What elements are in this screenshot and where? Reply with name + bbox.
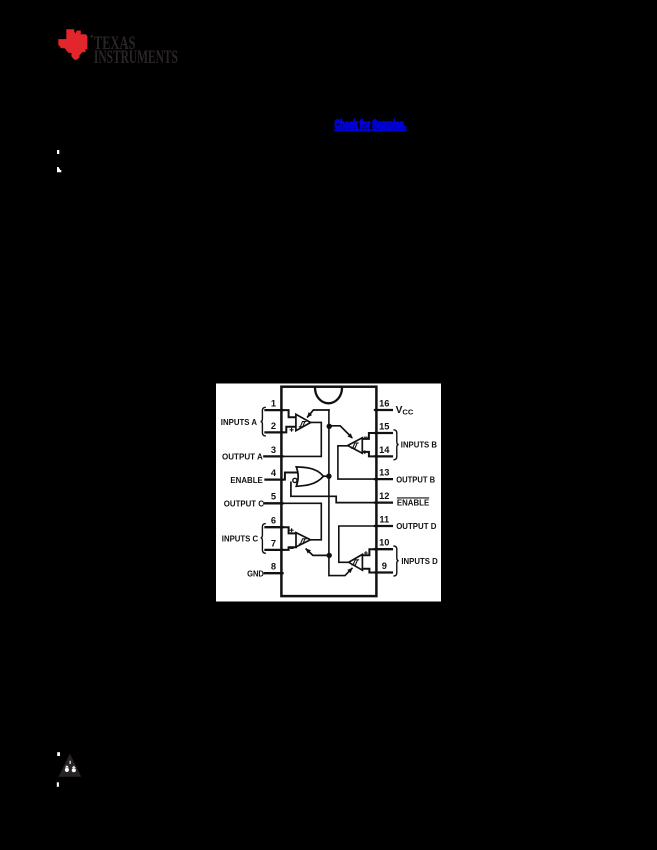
index notch: [315, 388, 342, 403]
white speck 3: [57, 752, 60, 756]
pin 2 lead: [266, 431, 283, 433]
svg-text:1: 1: [271, 399, 276, 409]
output D wire to pin 11: [339, 526, 375, 562]
output B wire to pin 13: [338, 446, 375, 479]
pin 16 lead: [375, 409, 392, 411]
pin 15 lead: [375, 432, 392, 434]
pin 12 lead: [375, 501, 392, 503]
svg-text:INSTRUMENTS: INSTRUMENTS: [94, 47, 178, 68]
svg-text:15: 15: [379, 421, 389, 431]
junction dot gate output: [326, 474, 331, 479]
brace inputs C: [261, 524, 266, 554]
legal notice triangle: [59, 754, 82, 777]
arrowhead into amp A: [307, 412, 312, 418]
junction dot upper bus: [327, 424, 332, 429]
arrowhead into amp B: [348, 433, 353, 438]
enable gate input wire from pin 4: [283, 473, 299, 480]
pin 11 lead: [375, 525, 392, 527]
white speck 4: [57, 782, 59, 787]
svg-text:INPUTS B: INPUTS B: [401, 440, 437, 450]
IC body outline: [281, 387, 376, 596]
gate output wire: [323, 475, 329, 477]
receiver amp A: [296, 414, 311, 430]
enable bus: [329, 410, 352, 576]
polarity marks: [290, 428, 368, 569]
hyperlink underline: [334, 129, 407, 131]
output A wire to pin 3: [283, 422, 322, 456]
svg-text:2: 2: [271, 421, 276, 431]
pin 10 lead: [375, 548, 392, 550]
junction dot lower bus: [327, 553, 332, 558]
pin 6 lead: [266, 526, 283, 528]
enable branch to amp B: [329, 426, 352, 438]
svg-text:16: 16: [379, 398, 389, 408]
brace inputs A: [261, 407, 266, 436]
TI logo wordmark TEXAS: [94, 33, 178, 68]
svg-text:13: 13: [379, 468, 389, 478]
pin 1 lead: [266, 409, 283, 411]
arrowhead into amp D: [347, 568, 352, 573]
svg-text:OUTPUT D: OUTPUT D: [396, 521, 436, 531]
svg-text:ENABLE: ENABLE: [397, 497, 430, 507]
svg-text:INPUTS D: INPUTS D: [401, 556, 437, 566]
svg-text:8: 8: [271, 562, 276, 572]
svg-text:INPUTS C: INPUTS C: [222, 534, 258, 544]
receiver amp D input wires: [362, 549, 375, 572]
svg-text:OUTPUT C: OUTPUT C: [224, 499, 264, 509]
svg-text:7: 7: [271, 538, 276, 548]
svg-text:14: 14: [379, 445, 390, 455]
svg-text:9: 9: [382, 561, 387, 571]
brace inputs D: [393, 546, 398, 576]
pin 5 lead: [264, 502, 282, 504]
white speck 1: [57, 150, 59, 154]
svg-text:3: 3: [271, 445, 276, 455]
scales glyph in triangle: [65, 761, 76, 773]
pin 4 lead: [266, 478, 283, 480]
svg-text:11: 11: [379, 514, 389, 524]
receiver amp B input wires: [362, 433, 375, 456]
enable gate: [296, 467, 323, 486]
TI logo trademark: [91, 35, 93, 37]
pin 3 lead: [264, 455, 282, 457]
svg-text:OUTPUT B: OUTPUT B: [396, 474, 435, 484]
receiver amp C input wires: [283, 527, 297, 550]
TI logo Texas map: [58, 29, 87, 60]
enable branch to amp A: [308, 410, 329, 417]
svg-text:OUTPUT A: OUTPUT A: [222, 451, 263, 461]
output C wire to pin 5: [283, 503, 322, 540]
receiver amp A input wires: [283, 410, 296, 432]
gate inverted input bubble: [293, 478, 297, 482]
pin 8 lead: [265, 572, 283, 574]
svg-text:4: 4: [271, 468, 277, 478]
svg-text:10: 10: [379, 538, 389, 548]
pinout figure background: [216, 384, 441, 602]
pin 9 lead: [375, 571, 392, 573]
receiver amp B: [348, 438, 363, 453]
svg-text:5: 5: [271, 492, 276, 502]
receiver amp D: [349, 554, 363, 570]
brace inputs B: [393, 430, 398, 460]
pin 7 lead: [266, 549, 283, 551]
white speck 2: [57, 167, 61, 172]
arrowhead into amp C: [306, 548, 311, 553]
enable branch to amp C: [306, 549, 329, 555]
pin 14 lead: [375, 455, 392, 457]
svg-text:INPUTS A: INPUTS A: [221, 417, 257, 427]
svg-text:ENABLE: ENABLE: [230, 475, 263, 485]
enable-bar wire from pin 12: [291, 482, 375, 502]
pin 13 lead: [375, 478, 392, 480]
svg-text:6: 6: [271, 516, 276, 526]
receiver amp C: [296, 533, 310, 547]
svg-text:12: 12: [379, 491, 389, 501]
svg-text:GND: GND: [247, 569, 264, 579]
